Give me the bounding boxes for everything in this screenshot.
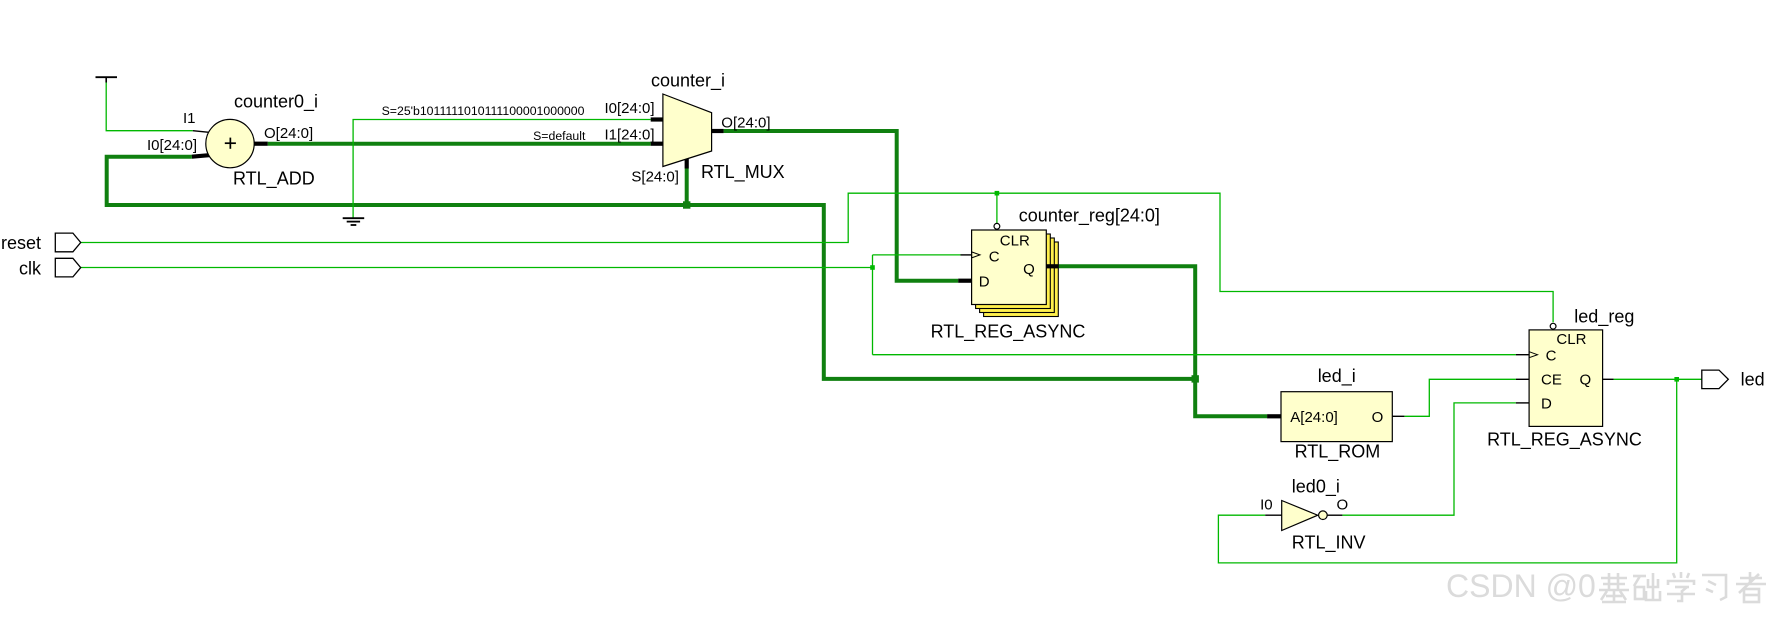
adder counter0_i body bbox=[206, 119, 254, 167]
led_reg CLR bubble bbox=[1550, 323, 1556, 329]
wire: led feedback to inverter I0 bbox=[1218, 379, 1676, 563]
pin stub: adder I0 (bus) bbox=[192, 155, 209, 157]
adder plus sign bbox=[225, 138, 236, 149]
junction: clk tee bbox=[870, 265, 875, 270]
inverter led0_i body bbox=[1282, 501, 1318, 531]
pin stub: counter_reg C bbox=[961, 254, 972, 256]
wire bus: counter_reg Q to ROM A bbox=[1058, 266, 1267, 416]
counter_reg body bbox=[972, 230, 1047, 305]
svg-text:led_reg: led_reg bbox=[1574, 307, 1634, 328]
svg-text:RTL_REG_ASYNC: RTL_REG_ASYNC bbox=[1487, 430, 1642, 451]
port led bbox=[1702, 370, 1729, 389]
svg-text:O[24:0]: O[24:0] bbox=[264, 125, 313, 142]
svg-text:S=25'b101111101011110000100000: S=25'b1011111010111100001000000 bbox=[382, 104, 585, 118]
svg-text:I0[24:0]: I0[24:0] bbox=[147, 137, 197, 154]
glyph ji (base) bbox=[1599, 573, 1629, 602]
svg-text:I1: I1 bbox=[183, 110, 196, 127]
svg-text:S=default: S=default bbox=[533, 129, 586, 143]
svg-text:I1[24:0]: I1[24:0] bbox=[605, 127, 655, 144]
led_reg body bbox=[1529, 330, 1603, 427]
svg-text:CSDN @0: CSDN @0 bbox=[1446, 568, 1596, 604]
svg-text:counter_i: counter_i bbox=[651, 71, 725, 92]
wire: VCC const to adder I1 bbox=[106, 82, 193, 131]
pin stub: mux S (bus) bbox=[685, 159, 689, 169]
pin stub: led_reg C bbox=[1516, 354, 1529, 356]
junction: Q feedback tee bbox=[1192, 375, 1199, 382]
glyph xue (study) bbox=[1667, 572, 1695, 601]
svg-text:C: C bbox=[1546, 348, 1557, 365]
glyph xi (practice) bbox=[1702, 575, 1726, 600]
svg-text:led: led bbox=[1741, 370, 1765, 390]
wire: ROM O to led_reg CE bbox=[1404, 379, 1516, 416]
port reset bbox=[55, 233, 80, 252]
svg-text:clk: clk bbox=[19, 258, 42, 278]
svg-text:I0[24:0]: I0[24:0] bbox=[605, 100, 655, 117]
led_reg clock triangle bbox=[1529, 352, 1537, 358]
svg-text:O: O bbox=[1337, 497, 1349, 514]
svg-text:RTL_INV: RTL_INV bbox=[1292, 533, 1366, 554]
wire: led_reg Q to led port bbox=[1614, 378, 1702, 380]
pin stub: led_reg Q bbox=[1603, 378, 1614, 380]
wire bus: feedback branch to mux S bbox=[685, 169, 689, 206]
pin stub: ROM A (bus) bbox=[1267, 414, 1281, 418]
wire: clk net to counter_reg C bbox=[81, 267, 873, 269]
junction: reset to counter_reg CLR bbox=[995, 191, 1000, 196]
svg-text:RTL_ROM: RTL_ROM bbox=[1295, 441, 1381, 462]
inverter bubble bbox=[1319, 511, 1328, 520]
svg-text:RTL_REG_ASYNC: RTL_REG_ASYNC bbox=[931, 322, 1086, 343]
junction: mux S on feedback net bbox=[683, 201, 690, 208]
svg-text:D: D bbox=[979, 273, 990, 290]
wire: clk branch to led_reg C bbox=[873, 354, 1516, 356]
pin stub: adder I1 bbox=[193, 131, 209, 133]
pin stub: ROM O bbox=[1392, 415, 1404, 417]
wire bus: adder O to mux I1 bbox=[268, 142, 651, 146]
svg-text:RTL_ADD: RTL_ADD bbox=[233, 169, 315, 190]
svg-text:C: C bbox=[989, 249, 1000, 266]
pin stub: inverter I0 bbox=[1265, 514, 1282, 516]
counter_reg stacked layers bbox=[976, 234, 1059, 317]
svg-text:S[24:0]: S[24:0] bbox=[631, 169, 679, 186]
svg-text:RTL_MUX: RTL_MUX bbox=[701, 162, 785, 183]
pin stub: counter_reg D (bus) bbox=[958, 279, 971, 283]
watermark CJK glyph strokes bbox=[1599, 572, 1766, 602]
svg-text:led0_i: led0_i bbox=[1292, 477, 1340, 498]
pin stub: adder O (bus) bbox=[254, 142, 267, 146]
pin stub: inverter O bbox=[1327, 514, 1342, 516]
mux counter_i body bbox=[663, 94, 712, 167]
pin stub: led_reg D bbox=[1516, 402, 1529, 404]
svg-text:O[24:0]: O[24:0] bbox=[721, 115, 770, 132]
svg-text:counter0_i: counter0_i bbox=[234, 92, 318, 113]
svg-text:CLR: CLR bbox=[1556, 331, 1586, 348]
wire: inverter O to led_reg D bbox=[1342, 403, 1516, 515]
svg-text:reset: reset bbox=[1, 233, 41, 253]
counter_reg CLR bubble bbox=[994, 223, 1000, 229]
port clk bbox=[55, 258, 80, 277]
counter_reg clock triangle bbox=[972, 252, 980, 258]
svg-text:O: O bbox=[1372, 409, 1384, 426]
svg-text:Q: Q bbox=[1023, 261, 1035, 278]
pin stub: led_reg CE bbox=[1516, 378, 1529, 380]
svg-text:counter_reg[24:0]: counter_reg[24:0] bbox=[1019, 206, 1160, 227]
junction: led net tee bbox=[1674, 377, 1679, 382]
pin stub: mux O (bus) bbox=[712, 129, 724, 133]
svg-text:I0: I0 bbox=[1260, 497, 1273, 514]
pin stub: mux I1 (bus) bbox=[651, 142, 663, 146]
svg-text:D: D bbox=[1541, 395, 1552, 412]
ROM led_i body bbox=[1281, 392, 1392, 442]
wire: reset branch to counter_reg CLR bubble bbox=[996, 193, 998, 223]
svg-text:CE: CE bbox=[1541, 371, 1562, 388]
wire bus: mux O to counter_reg D bbox=[724, 131, 959, 281]
glyph zhe (person) bbox=[1736, 572, 1766, 602]
power symbol (const1) bbox=[96, 77, 118, 82]
wire: reset net to CLR pins bbox=[81, 193, 1553, 322]
glyph chu (foundation) bbox=[1633, 573, 1660, 600]
svg-text:CLR: CLR bbox=[1000, 233, 1030, 250]
wire bus: Q feedback to adder I0 bbox=[107, 157, 1196, 379]
pin stub: counter_reg Q (bus) bbox=[1046, 264, 1058, 268]
pin stub: mux I0 (bus) bbox=[651, 117, 663, 121]
svg-text:led_i: led_i bbox=[1318, 366, 1356, 387]
svg-text:Q: Q bbox=[1580, 371, 1592, 388]
svg-text:A[24:0]: A[24:0] bbox=[1290, 409, 1338, 426]
wire: gnd const to mux I0 bbox=[353, 120, 651, 218]
ground symbol (const0) bbox=[343, 218, 365, 225]
